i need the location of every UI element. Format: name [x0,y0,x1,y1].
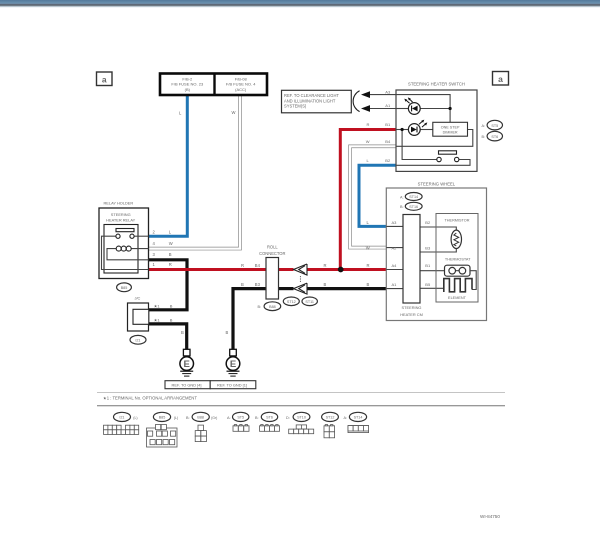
svg-text:J/C: J/C [135,296,141,301]
svg-text:R: R [367,263,370,268]
svg-text:ST12: ST12 [326,416,335,420]
svg-text:A:: A: [482,124,486,128]
svg-text:B:: B: [258,305,262,309]
relay holder box [99,208,149,279]
svg-text:a: a [102,74,107,84]
svg-text:B88: B88 [197,416,204,420]
svg-text:ST12: ST12 [287,300,296,304]
connector oval i21 [130,335,146,344]
CM pin labels [392,220,431,287]
svg-text:B: B [169,252,172,257]
ref to clearance light box [282,90,352,113]
svg-text:R: R [367,122,370,127]
one step dimmer box [433,122,468,136]
svg-text:B3: B3 [255,282,261,287]
svg-text:1: 1 [153,262,156,267]
svg-text:ST5: ST5 [237,416,244,420]
LED D1 illumination [404,97,420,114]
roll connector [259,244,285,299]
svg-text:A:: A: [400,195,404,199]
relay pin labels [153,229,173,266]
svg-text:W: W [232,110,236,115]
svg-text:A3: A3 [392,220,398,225]
svg-text:B: B [181,330,184,335]
svg-text:B:: B: [186,416,190,420]
joint connector J/C [128,296,149,331]
steering heater relay [102,212,149,273]
svg-text:i21: i21 [120,416,125,420]
svg-text:L: L [169,229,172,234]
switch contact circles [437,157,441,161]
svg-text:A3: A3 [385,89,391,94]
wire L fuse to relay pin 2 [149,95,188,236]
roll connector pin labels [241,263,327,287]
svg-text:L: L [367,220,370,225]
svg-text:a: a [498,74,503,84]
svg-text:B2: B2 [385,158,391,163]
svg-text:CONNECTOR: CONNECTOR [259,251,285,256]
svg-text:R: R [169,262,172,267]
svg-text:B: B [367,282,370,287]
svg-text:R: R [324,263,327,268]
switch contact bar [439,151,457,154]
heater components box [436,214,478,303]
svg-text:F/B FUSE NO. 4: F/B FUSE NO. 4 [226,82,256,87]
svg-text:ST14: ST14 [409,195,418,199]
svg-text:2: 2 [153,229,156,234]
wire B roll connector B3 to ground E2 [233,289,266,350]
svg-text:RELAY HOLDER: RELAY HOLDER [104,201,134,206]
svg-text:★1 : TERMINAL No. OPTIONAL ARR: ★1 : TERMINAL No. OPTIONAL ARRANGEMENT [103,395,197,400]
svg-text:B5: B5 [425,282,431,287]
svg-text:STEERING WHEEL: STEERING WHEEL [418,182,456,187]
svg-text:(B): (B) [185,87,191,92]
legend oval i21 [114,412,131,421]
svg-text:ST14: ST14 [354,416,363,420]
svg-text:★1: ★1 [154,304,161,309]
wire A3 to ref arrow [370,94,396,96]
svg-text:B:: B: [482,135,486,139]
svg-text:STEERING: STEERING [111,212,131,217]
svg-text:A:: A: [344,416,348,420]
svg-text:ONE STEP: ONE STEP [441,126,460,130]
svg-text:D:: D: [286,416,290,420]
svg-text:WI-84750: WI-84750 [480,514,500,519]
svg-text:W: W [169,241,173,246]
svg-text:E: E [230,359,236,370]
svg-text:B2: B2 [425,220,431,225]
legend separator rules [97,391,505,393]
relay contact circles [116,234,120,238]
ground E2 [226,349,240,376]
svg-text:L: L [367,158,370,163]
wire W switch B4 to steering wheel A2 [350,146,396,247]
svg-text:ST16: ST16 [409,205,418,209]
legend grid ST5 [233,425,249,432]
wire W fuse ACC to relay pin 4 [149,95,241,249]
node a box left [97,72,113,86]
inline connector ST11 on black wire [294,283,308,294]
svg-text:ROLL: ROLL [267,244,278,249]
junction dot in switch B1/LED [401,128,404,131]
svg-text:STEERING: STEERING [402,305,422,310]
wire B inline connector to steering wheel A1 [307,287,386,290]
svg-text:HEATER CM: HEATER CM [400,312,423,317]
svg-text:B: B [241,282,244,287]
switch internal wiring [396,95,473,166]
steering wheel entry labels [366,220,370,287]
legend oval ST12 [322,412,339,421]
legend oval B85 [153,412,170,421]
connector oval B85 [117,283,132,292]
inline connector ST12 on red wire [294,264,308,275]
svg-text:(L): (L) [174,416,178,420]
node a box right [493,72,509,86]
svg-text:ELEMENT: ELEMENT [448,296,467,300]
steering heater CM rect [403,215,420,304]
svg-text:A1: A1 [392,282,398,287]
svg-text:B: B [170,318,173,323]
junction dot in switch A3/LED [449,107,452,110]
svg-text:ST5: ST5 [491,124,498,128]
svg-text:B85: B85 [159,416,166,420]
relay internal wiring [102,236,149,269]
svg-text:B1: B1 [425,263,431,268]
svg-text:★1: ★1 [154,318,161,323]
svg-text:B4: B4 [385,139,391,144]
svg-text:B: B [170,304,173,309]
svg-text:(L): (L) [133,416,137,420]
svg-text:ST6: ST6 [266,416,273,420]
svg-text:(ACC): (ACC) [235,87,247,92]
svg-text:B: B [226,330,229,335]
svg-text:W: W [366,245,370,250]
svg-text:REF. TO CLEARANCE LIGHT: REF. TO CLEARANCE LIGHT [284,93,339,98]
legend grid ST12 [324,425,335,438]
svg-text:W: W [366,139,370,144]
svg-text:i21: i21 [136,339,141,343]
relay contact bar [116,229,134,232]
svg-text:THERMISTOR: THERMISTOR [444,218,469,222]
svg-text:A:: A: [227,416,231,420]
wire R branch to switch B1 [340,130,396,270]
svg-text:B3: B3 [425,245,431,250]
wire B joint connector to ground E1 [149,324,187,350]
wire A1 to ref arrow [370,108,396,110]
svg-text:A4: A4 [392,263,398,268]
svg-text:DIMMER: DIMMER [443,131,458,135]
bracket arc [353,91,359,112]
wire R relay pin 1 to roll connector B4 [149,268,267,271]
legend grid i21 [104,425,139,434]
svg-text:ST6: ST6 [491,135,498,139]
connector oval ST11 [302,297,317,306]
svg-text:F/B FUSE NO. 23: F/B FUSE NO. 23 [171,82,204,87]
svg-text:AND ILLUMINATION LIGHT: AND ILLUMINATION LIGHT [284,98,336,103]
J/C pin labels [154,304,173,323]
svg-text:4: 4 [153,241,156,246]
svg-text:B4: B4 [255,263,261,268]
svg-text:A2: A2 [392,245,398,250]
legend grid ST14 [348,426,369,433]
junction dot red node [338,267,344,273]
svg-text:HEATER RELAY: HEATER RELAY [106,218,135,223]
svg-text:REF. TO GND [4]: REF. TO GND [4] [172,382,202,387]
svg-text:ST11: ST11 [305,300,314,304]
legend grid ST10 [289,425,314,434]
wire R roll connector to inline connector ST12 [279,268,294,271]
LED D2 indicator [408,120,427,136]
ref to gnd boxes [165,381,256,389]
svg-text:REF. TO GND [1]: REF. TO GND [1] [217,382,247,387]
svg-text:B:: B: [400,205,404,209]
svg-text:B: B [324,282,327,287]
wire R inline connector to steering wheel A4 [307,268,386,271]
svg-text:R: R [241,263,244,268]
svg-text:L: L [179,111,182,116]
connector oval ST12 [283,297,299,306]
heater element [444,279,472,292]
svg-text:B1: B1 [385,122,391,127]
relay coil [116,246,131,251]
svg-text:ST10: ST10 [297,416,306,420]
svg-text:A1: A1 [385,103,391,108]
legend grid ST6 [260,425,280,432]
svg-text:STEERING HEATER SWITCH: STEERING HEATER SWITCH [408,82,465,87]
legend grid B88 [195,425,206,442]
wire B roll connector B3 to inline connector ST11 [279,287,294,290]
svg-text:THERMOSTAT: THERMOSTAT [445,258,471,262]
fuse box F/B [160,74,267,96]
svg-text:SYSTEM(S): SYSTEM(S) [284,104,307,109]
dotted pair line [299,276,301,282]
wire L switch B2 to steering wheel A3 [359,165,396,226]
svg-text:E: E [184,359,190,370]
legend grid B85 [147,425,178,448]
svg-text:B:: B: [255,416,259,420]
svg-text:B85: B85 [121,286,128,290]
steering wheel internal wires [386,226,456,288]
svg-text:B88: B88 [269,305,276,309]
svg-text:(Gr): (Gr) [211,416,217,420]
wire B relay pin 3 to joint connector [149,260,188,310]
thermostat to element link [470,271,476,290]
ground E1 [180,349,194,376]
svg-text:3: 3 [153,252,156,257]
switch left pin labels [366,122,391,163]
